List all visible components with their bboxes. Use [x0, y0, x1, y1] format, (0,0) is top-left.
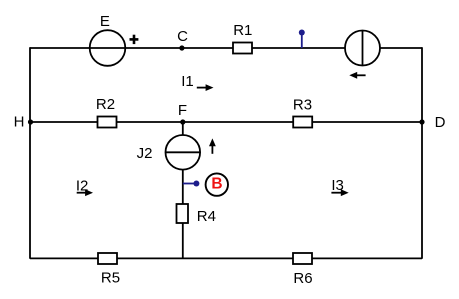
svg-text:D: D: [435, 114, 446, 131]
node C: [179, 45, 184, 50]
resistor R2: [98, 117, 117, 128]
wire top right: current source to right corner: [380, 47, 422, 49]
polarity plus of E: [130, 35, 139, 44]
svg-text:H: H: [14, 114, 25, 131]
svg-text:J2: J2: [137, 145, 153, 162]
node F: [180, 119, 185, 124]
node D: [419, 119, 424, 124]
wire right vertical: [421, 47, 423, 259]
wire F down to J2 top: [182, 122, 184, 135]
svg-text:R5: R5: [101, 269, 120, 286]
resistor R1: [233, 43, 252, 54]
current source J2: [166, 135, 201, 170]
probe (blue) on top wire: [299, 30, 305, 49]
wire bottom: [30, 257, 422, 259]
svg-text:I1: I1: [181, 73, 194, 90]
svg-text:R6: R6: [293, 270, 312, 287]
svg-text:E: E: [100, 13, 110, 30]
arrow up beside J2: [209, 138, 216, 153]
wire middle H to D: [30, 121, 422, 123]
svg-text:C: C: [177, 28, 188, 45]
svg-text:R2: R2: [96, 96, 115, 113]
wire top: H-corner to current source left edge: [30, 47, 345, 49]
resistor R6: [293, 253, 312, 264]
svg-text:B: B: [211, 175, 222, 192]
resistor R5: [98, 253, 117, 264]
wire left vertical: [29, 47, 31, 259]
resistor R4: [177, 204, 189, 223]
voltage source E: [90, 30, 126, 66]
wire J2 bottom down to bottom rail: [182, 170, 184, 259]
svg-text:R3: R3: [293, 96, 312, 113]
svg-text:R1: R1: [233, 22, 252, 39]
node B marker: [206, 173, 228, 195]
current source (right, controlled): [345, 31, 380, 66]
svg-text:F: F: [178, 102, 187, 119]
node H: [28, 119, 33, 124]
arrow left under current source: [349, 72, 365, 79]
probe (blue) node B: [183, 181, 200, 187]
resistor R3: [293, 117, 312, 128]
svg-text:R4: R4: [197, 208, 216, 225]
